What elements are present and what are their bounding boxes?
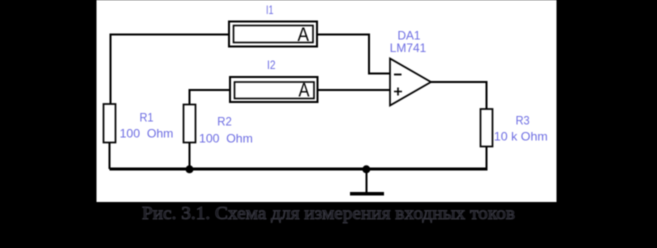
svg-text:R3: R3 xyxy=(516,114,530,128)
svg-text:R2: R2 xyxy=(217,115,232,129)
svg-text:I2: I2 xyxy=(267,58,276,72)
svg-text:100 Ohm: 100 Ohm xyxy=(120,127,174,141)
svg-text:10 k Ohm: 10 k Ohm xyxy=(494,130,548,144)
svg-text:Рис. 3.1. Схема для измерения: Рис. 3.1. Схема для измерения входных то… xyxy=(142,203,515,223)
svg-text:R1: R1 xyxy=(140,111,154,125)
svg-text:A: A xyxy=(298,25,310,46)
svg-text:LM741: LM741 xyxy=(390,41,427,55)
svg-text:I1: I1 xyxy=(266,3,274,17)
svg-text:A: A xyxy=(299,81,310,102)
svg-text:100 Ohm: 100 Ohm xyxy=(199,132,253,146)
